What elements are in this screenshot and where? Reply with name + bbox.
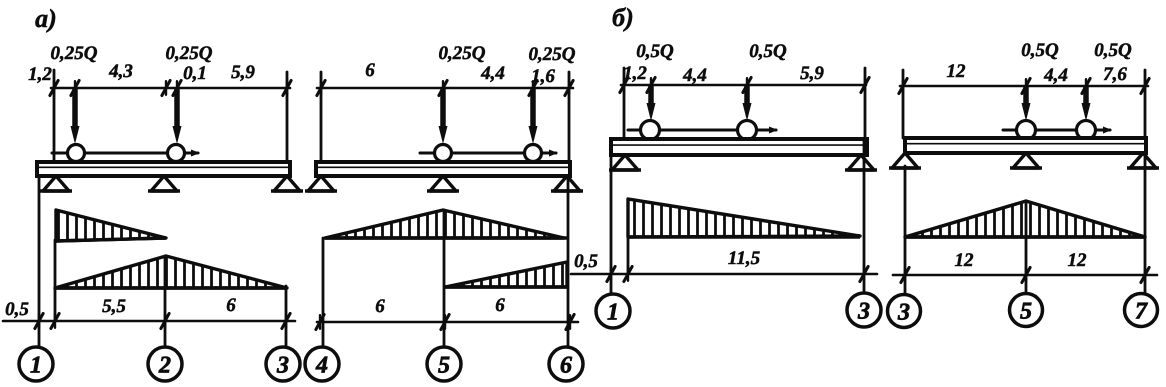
- support A1 left: [40, 176, 72, 191]
- section label a: [35, 4, 57, 33]
- wheel b1-1: [641, 121, 660, 140]
- node 4: [305, 347, 339, 381]
- node 5b: [1010, 294, 1043, 327]
- load arrow b2-1: [1022, 86, 1031, 121]
- node line 3b: [863, 140, 866, 293]
- load arrow b1-2: [743, 85, 752, 121]
- dim label 4,4 b1: [682, 65, 707, 86]
- wheel line B1: [628, 127, 778, 134]
- load arrow a1-2: [173, 88, 182, 144]
- svg-text:5: 5: [1020, 299, 1032, 325]
- support A2 mid: [427, 176, 459, 191]
- tick B2 t4: [1141, 79, 1149, 94]
- svg-text:11,5: 11,5: [728, 248, 761, 269]
- tick A2 t4: [565, 81, 573, 96]
- node 3: [266, 347, 300, 381]
- load label 0,5Q b1-2: [749, 41, 787, 62]
- tick A1 b1: [35, 314, 43, 329]
- dim vertical right B2: [1144, 70, 1147, 138]
- node 7: [1125, 294, 1158, 327]
- svg-text:4,4: 4,4: [682, 65, 707, 86]
- tick B1 b3: [860, 267, 868, 282]
- section label b: [612, 3, 634, 32]
- dim vertical left B1: [623, 68, 626, 138]
- dim vertical right A1: [286, 72, 289, 162]
- tick A1 t4: [173, 81, 181, 96]
- moment diagram A1 lower: [55, 256, 287, 288]
- tick A1 t5: [283, 81, 291, 96]
- node line 1: [38, 176, 41, 347]
- beam A2: [316, 162, 570, 176]
- tick A1 b3: [161, 314, 169, 329]
- svg-text:3: 3: [897, 300, 910, 326]
- node line 5: [443, 210, 446, 347]
- node line 3c: [904, 166, 907, 294]
- dim label 12 b2b2: [1068, 250, 1088, 271]
- dim line top A2: [317, 87, 573, 90]
- dim label 1,6: [531, 66, 555, 87]
- beam B2: [905, 138, 1146, 153]
- svg-text:0,25Q: 0,25Q: [439, 43, 486, 64]
- support A1 mid: [148, 176, 180, 191]
- dim vertical right B1: [864, 68, 867, 138]
- tick B2 t3: [1082, 79, 1090, 94]
- svg-text:1,2: 1,2: [28, 64, 52, 85]
- svg-text:0,5Q: 0,5Q: [636, 41, 674, 62]
- tick B1 b1: [607, 267, 615, 282]
- wheel line B2: [1003, 127, 1112, 134]
- beam B1: [611, 139, 867, 155]
- svg-text:5: 5: [438, 353, 450, 379]
- tick A1 b2: [51, 314, 59, 329]
- dim label 7,6: [1103, 64, 1127, 85]
- svg-text:б): б): [612, 3, 634, 32]
- load arrow b1-1: [647, 85, 656, 121]
- dim label 1,2: [28, 64, 52, 85]
- node 6: [549, 347, 583, 381]
- moment diagram B2: [905, 201, 1145, 237]
- svg-text:0,25Q: 0,25Q: [51, 43, 98, 64]
- dim label 5,9: [231, 62, 255, 83]
- svg-text:0,5Q: 0,5Q: [749, 41, 787, 62]
- node line 4: [322, 238, 325, 347]
- node 3c: [888, 295, 921, 328]
- tick A1 t3: [162, 81, 170, 96]
- tick B1 b2: [624, 267, 632, 282]
- dim line bottom A2: [317, 321, 578, 324]
- svg-text:6: 6: [560, 353, 572, 379]
- node line 3: [285, 286, 288, 347]
- dim label 4,3: [108, 61, 133, 82]
- dim label 6 a2b2: [495, 295, 505, 316]
- svg-text:1,2: 1,2: [623, 63, 647, 84]
- svg-text:12: 12: [947, 61, 967, 82]
- node 5: [427, 347, 461, 381]
- wheel b1-2: [738, 121, 757, 140]
- svg-text:6: 6: [226, 295, 236, 316]
- dim label 12 b2top: [947, 61, 967, 82]
- support B2 mid: [1010, 153, 1042, 168]
- svg-text:0,25Q: 0,25Q: [166, 43, 213, 64]
- support A2 left: [305, 176, 337, 191]
- tick A2 t2: [439, 81, 447, 96]
- dim label 4,4 b2: [1043, 65, 1068, 86]
- wheel b2-1: [1017, 121, 1036, 140]
- dim line top A1: [51, 87, 290, 90]
- tick B2 b2: [1022, 268, 1030, 283]
- tick A1 t1: [50, 81, 58, 96]
- svg-text:1,6: 1,6: [531, 66, 555, 87]
- node 3b: [847, 293, 881, 327]
- svg-text:4,4: 4,4: [480, 63, 505, 84]
- wheel line A1: [52, 150, 200, 157]
- load arrow b2-2: [1082, 86, 1091, 121]
- tick B2 b1: [901, 268, 909, 283]
- svg-text:7: 7: [1135, 299, 1148, 325]
- dim label 11,5: [728, 248, 761, 269]
- svg-text:0,25Q: 0,25Q: [529, 44, 576, 65]
- tick A1 t2: [71, 81, 79, 96]
- tick A2 b2: [441, 315, 449, 330]
- support A2 right: [551, 176, 583, 191]
- svg-text:0,1: 0,1: [183, 63, 207, 84]
- svg-text:12: 12: [1068, 250, 1088, 271]
- beam A1: [37, 162, 290, 176]
- dim vertical right A2: [568, 72, 571, 160]
- node line 2: [164, 256, 167, 347]
- node line 5b: [1025, 201, 1028, 293]
- svg-text:7,6: 7,6: [1103, 64, 1127, 85]
- svg-text:2: 2: [158, 353, 171, 379]
- dim vertical left A2: [320, 72, 323, 160]
- dim vertical left A1: [53, 70, 56, 162]
- svg-text:12: 12: [955, 250, 975, 271]
- support B1 right: [845, 155, 877, 170]
- tick A1 b4: [282, 314, 290, 329]
- node 1b: [596, 294, 630, 328]
- support line B1: [627, 237, 630, 274]
- dim label 4,4 a2: [480, 63, 505, 84]
- svg-text:3: 3: [857, 299, 870, 325]
- dim label 12 b2b1: [955, 250, 975, 271]
- load arrow a1-1: [71, 88, 80, 144]
- svg-text:0,5: 0,5: [5, 299, 29, 320]
- support B2 left: [889, 153, 921, 168]
- node line 1b: [610, 155, 613, 295]
- load arrow a2-1: [439, 88, 448, 144]
- moment diagram A2 upper: [325, 210, 567, 238]
- dim label 6 a1: [226, 295, 236, 316]
- support B1 left: [609, 155, 641, 170]
- support line A1: [54, 240, 57, 321]
- dim line bottom B1: [571, 273, 877, 276]
- svg-text:0,5Q: 0,5Q: [1021, 40, 1059, 61]
- load label 0,5Q b2-1: [1021, 40, 1059, 61]
- svg-text:4,4: 4,4: [1043, 65, 1068, 86]
- moment diagram A1 upper: [56, 210, 166, 241]
- load arrow a2-2: [529, 88, 538, 144]
- tick B2 t2: [1022, 79, 1030, 94]
- tick B2 b3: [1141, 268, 1149, 283]
- node line 6: [567, 179, 570, 347]
- dim label 0,5 a: [5, 299, 29, 320]
- svg-text:6: 6: [365, 60, 375, 81]
- tick B1 t4: [861, 78, 869, 93]
- svg-text:5,5: 5,5: [102, 296, 126, 317]
- support A1 right: [271, 176, 303, 191]
- tick A2 b1: [316, 315, 324, 330]
- node line 7: [1144, 156, 1147, 292]
- dim line top B1: [621, 84, 866, 87]
- tick A2 t3: [529, 81, 537, 96]
- wheel a1-2: [168, 145, 185, 162]
- svg-text:4: 4: [315, 353, 328, 379]
- tick B1 t1: [620, 78, 628, 93]
- load label 0,25Q a2-1: [439, 43, 486, 64]
- dim label 6 a2top: [365, 60, 375, 81]
- tick A2 t1: [317, 81, 325, 96]
- moment diagram A2 lower: [445, 262, 567, 287]
- svg-text:4,3: 4,3: [108, 61, 133, 82]
- load label 0,5Q b2-2: [1094, 40, 1132, 61]
- svg-text:0,5: 0,5: [574, 251, 598, 272]
- dim label 5,9 b: [800, 63, 824, 84]
- wheel a1-1: [68, 145, 85, 162]
- dim label 6 a2b1: [375, 296, 385, 317]
- wheel b2-2: [1077, 121, 1096, 140]
- load label 0,25Q a1-1: [51, 43, 98, 64]
- tick B1 t3: [743, 78, 751, 93]
- load label 0,25Q a1-2: [166, 43, 213, 64]
- svg-text:а): а): [35, 4, 57, 33]
- svg-text:1: 1: [30, 353, 42, 379]
- svg-text:0,5Q: 0,5Q: [1094, 40, 1132, 61]
- dim line bottom A1: [3, 320, 295, 323]
- load label 0,25Q a2-2: [529, 44, 576, 65]
- node 2: [148, 347, 182, 381]
- dim line bottom B2: [893, 274, 1157, 277]
- node 1: [19, 347, 53, 381]
- wheel line A2: [420, 150, 558, 157]
- tick B1 t2: [647, 78, 655, 93]
- moment diagram B1: [628, 199, 860, 237]
- load label 0,5Q b1-1: [636, 41, 674, 62]
- dim label 0,5 b: [574, 251, 598, 272]
- dim line top B2: [900, 85, 1148, 88]
- wheel a2-2: [525, 145, 542, 162]
- svg-text:6: 6: [375, 296, 385, 317]
- tick B2 t1: [899, 79, 907, 94]
- support B2 right: [1127, 153, 1159, 168]
- svg-text:5,9: 5,9: [800, 63, 824, 84]
- tick A2 b3: [566, 315, 574, 330]
- dim label 0,1: [183, 63, 207, 84]
- svg-text:5,9: 5,9: [231, 62, 255, 83]
- svg-text:6: 6: [495, 295, 505, 316]
- dim label 1,2 b: [623, 63, 647, 84]
- wheel a2-1: [435, 145, 452, 162]
- dim vertical left B2: [902, 70, 905, 138]
- dim label 5,5: [102, 296, 126, 317]
- svg-text:3: 3: [276, 353, 289, 379]
- svg-text:1: 1: [607, 300, 619, 326]
